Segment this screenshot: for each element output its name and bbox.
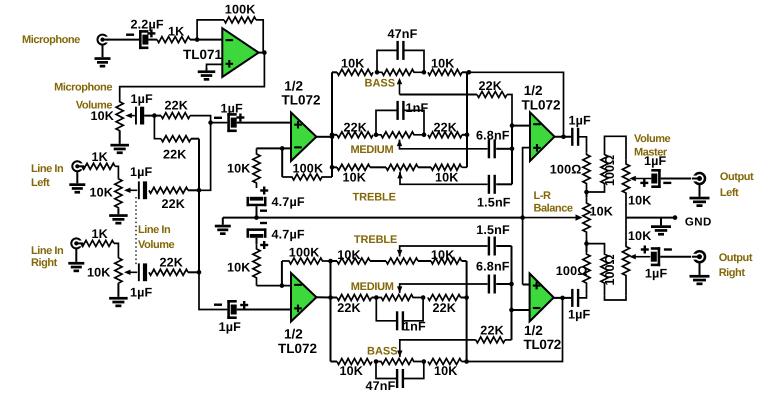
svg-text:22K: 22K [479, 79, 503, 93]
node medium top left [374, 133, 379, 138]
node virtual earth 6.8nF [510, 147, 515, 152]
svg-text:Left: Left [31, 177, 50, 189]
resistor R23 10K (treble bottom right) [431, 248, 462, 264]
svg-text:L-R: L-R [534, 190, 551, 202]
svg-text:TL072: TL072 [522, 98, 561, 113]
capacitor C15 1.5nF (bottom) [476, 223, 510, 256]
op-amp U5 1/2 TL072 [524, 274, 562, 353]
plus sign (C5) [260, 241, 268, 249]
wire R17 to P6 [370, 166, 386, 168]
svg-text:1.5nF: 1.5nF [476, 223, 510, 237]
wire R29 to node B2 [586, 244, 588, 252]
wire right rail top (feedback column) [466, 72, 468, 167]
wire C3 to U2 + input [237, 122, 291, 124]
wiper arrow P3 [124, 270, 137, 275]
svg-text:1/2: 1/2 [524, 323, 543, 338]
wire U3 inv node to R21 [281, 261, 283, 286]
node medium bottom right [421, 295, 426, 300]
node medium bottom left [374, 295, 379, 300]
resistor R26 10K (bass bottom left) [337, 359, 372, 378]
wire U3 output [316, 296, 330, 298]
svg-text:2.2µF: 2.2µF [131, 18, 164, 32]
resistor R6 1K (line L) [82, 150, 115, 169]
svg-text:22K: 22K [162, 197, 186, 211]
resistor R11 100K (U2 feedback) [282, 162, 332, 180]
node bass bottom rail [464, 359, 469, 364]
wire node B to rotated resistor R20 [587, 190, 605, 192]
label MEDIUM bottom [351, 281, 394, 293]
wire rail to R12 [332, 71, 337, 73]
wiper arrow P7 (balance, from reference rail) [523, 214, 583, 220]
svg-text:MEDIUM: MEDIUM [351, 144, 394, 156]
svg-text:1nF: 1nF [403, 320, 426, 334]
node U2 inv input [280, 146, 285, 151]
capacitor C2 1uF (mic volume) [131, 92, 154, 125]
svg-text:100K: 100K [289, 246, 320, 260]
wire C20 to output jack right [660, 256, 695, 258]
wiper arrow P5 (up) [397, 140, 402, 147]
potentiometer P3 10K line volume R [87, 258, 122, 283]
potentiometer P8 10K master volume left [622, 160, 651, 218]
resistor R12 10K (bass top left) [337, 57, 373, 76]
capacitor C5 4.7uF [247, 228, 305, 242]
svg-text:1µF: 1µF [568, 308, 591, 322]
svg-text:100Ω: 100Ω [550, 162, 582, 176]
ground (mic jack) [95, 44, 111, 67]
wire C4 to center node [256, 206, 258, 217]
capacitor C20 1uF (master out right) [641, 246, 672, 281]
svg-text:10K: 10K [434, 364, 458, 378]
ground (GND rail) [651, 218, 671, 236]
resistor R29 100 ohm (right) [556, 252, 590, 294]
capacitor C3 1uF (U2 input) [214, 101, 244, 132]
svg-text:1µF: 1µF [644, 154, 667, 168]
node U3 output junction [328, 295, 333, 300]
ground (P2 bottom) [109, 208, 128, 224]
capacitor C4 4.7uF [247, 195, 305, 209]
label Output Left [720, 171, 754, 199]
svg-text:10K: 10K [628, 229, 652, 243]
resistor R13 10K (bass top right) [428, 57, 462, 76]
svg-text:10K: 10K [337, 248, 361, 262]
svg-text:1K: 1K [168, 25, 184, 39]
svg-text:100Ω: 100Ω [603, 254, 617, 285]
capacitor C17 6.8nF (bottom) [476, 260, 510, 294]
svg-text:22K: 22K [434, 121, 458, 135]
wire rail to R24 [331, 297, 338, 299]
plus sign (C4) [260, 187, 268, 195]
svg-text:TL071: TL071 [183, 47, 223, 62]
connector J1 Microphone jack [98, 35, 111, 45]
node U2 + input branch [208, 120, 213, 125]
node A (U1 inv input) [195, 37, 200, 42]
node GND [673, 215, 678, 220]
wire C19 to R29 [579, 294, 587, 298]
wiper arrow P2 [124, 188, 137, 193]
wiper arrow P8 [629, 176, 651, 181]
svg-text:Left: Left [720, 187, 739, 199]
node bass bottom left [374, 359, 379, 364]
svg-text:BASS: BASS [365, 78, 396, 90]
node TREBLE bottom left [328, 259, 333, 264]
svg-text:TL072: TL072 [524, 337, 562, 352]
minus sign (C4) [260, 209, 267, 211]
resistor R30 100 ohm (rotated label, right) [601, 250, 617, 296]
resistor R27 10K (bass bottom right) [428, 359, 462, 378]
wiper arrow P4 (up) [397, 78, 402, 95]
svg-text:100Ω: 100Ω [556, 264, 588, 278]
wire C1 to R1 [148, 39, 157, 41]
svg-text:1µF: 1µF [130, 165, 153, 179]
wire U4 output [555, 136, 572, 138]
svg-text:1nF: 1nF [406, 101, 429, 115]
node mix rail line L [197, 188, 202, 193]
potentiometer P1 10K mic volume [90, 102, 123, 132]
wire R7 to mix rail [188, 189, 199, 191]
ground (center) [215, 218, 231, 235]
wire right rail bottom (feedback column) [466, 261, 468, 362]
svg-text:1µF: 1µF [131, 92, 154, 106]
connector J3 Line In Right jack [71, 238, 84, 248]
wire treble right to rail corner [462, 166, 468, 168]
resistor R3 22K (mic) [161, 99, 190, 119]
wire R30 bottom to master pot P12 [605, 296, 627, 300]
svg-text:1K: 1K [92, 150, 108, 164]
ground (J5) [690, 261, 710, 285]
svg-text:TL072: TL072 [282, 93, 321, 108]
resistor R19 100 ohm (left) [550, 152, 590, 190]
label GND [685, 217, 712, 229]
capacitor C8 1uF (line R) [130, 263, 153, 299]
svg-text:1/2: 1/2 [284, 79, 303, 94]
wire center reference rail [223, 217, 523, 219]
label Microphone [22, 34, 80, 46]
potentiometer P12 10K master volume right [622, 229, 651, 296]
svg-text:10K: 10K [87, 266, 111, 280]
svg-text:10K: 10K [340, 364, 364, 378]
wire C5 to R5 [256, 238, 258, 244]
svg-text:Balance: Balance [534, 203, 573, 215]
wire U1 output [259, 52, 265, 54]
label Volume Master [634, 133, 671, 159]
wire R20 top to master pot P8 [605, 136, 627, 160]
svg-text:4.7µF: 4.7µF [272, 228, 305, 242]
wire rail to R17 [332, 166, 337, 168]
wire node B2 to rotated resistor R30 [587, 244, 605, 250]
wiper arrow P6 (up) [397, 172, 402, 179]
node medium bottom rail [464, 295, 469, 300]
wire U3 non-inverting input [237, 309, 291, 311]
svg-text:1µF: 1µF [130, 286, 153, 300]
wire R9 to P3 [114, 243, 118, 258]
op-amp U3 1/2 TL072 [278, 273, 317, 356]
resistor R8 22K (mic to mix rail) [161, 136, 191, 162]
op-amp U2 1/2 TL072 [282, 79, 321, 162]
wire bass bottom row to U5 output net [462, 298, 563, 362]
op-amp U4 1/2 TL072 [522, 83, 561, 161]
svg-text:10K: 10K [341, 57, 365, 71]
capacitor C1 2.2uF [126, 18, 164, 50]
resistor R14 22K (bass top) [477, 79, 507, 98]
resistor R25 22K (medium bottom right) [428, 295, 461, 315]
wire C15 to virtual earth column bottom [496, 245, 511, 247]
capacitor C14 1uF (master out left) [640, 154, 671, 188]
svg-text:TREBLE: TREBLE [354, 234, 397, 246]
wire R1 to U1 inverting input [190, 39, 222, 41]
connector J5 Output Right jack [691, 251, 705, 262]
node U4 output junction [561, 135, 566, 140]
potentiometer P6 treble top [386, 164, 418, 170]
wire treble wiper to C12 [400, 172, 488, 184]
svg-text:1µF: 1µF [569, 113, 592, 127]
node bass bottom right [422, 359, 427, 364]
op-amp U1 TL071 [183, 28, 259, 77]
wire R8 to mix rail [191, 138, 199, 140]
node bass top left [375, 70, 380, 75]
wire U1 output down and left to volume pot [120, 53, 265, 102]
node B left channel [584, 190, 589, 195]
wire node X down to R8 [154, 116, 161, 139]
wire U2 output [316, 136, 332, 138]
capacitor C19 1uF (right out coupling) [568, 289, 591, 322]
wire bass wiper to R14 [400, 94, 478, 96]
wire mix rail to C6 [199, 272, 227, 309]
ground (J4) [690, 183, 710, 207]
wire U4 non-inverting to reference [523, 148, 530, 285]
wire R10 to mix rail [188, 271, 199, 273]
wire C12 to virtual earth column [496, 183, 512, 185]
connector J2 Line In Left jack [72, 161, 85, 171]
wire C13 to R19 [579, 137, 587, 152]
wire C11 to virtual earth node [496, 148, 512, 150]
connector J4 Output Left jack [691, 173, 705, 184]
resistor R1 1K [157, 25, 190, 43]
svg-text:10K: 10K [628, 194, 652, 208]
node reference rail junction [520, 215, 525, 220]
wire mic jack to C1 [106, 39, 139, 41]
label Microphone Volume [54, 82, 112, 112]
node medium top right [422, 133, 427, 138]
svg-text:22K: 22K [344, 121, 368, 135]
wire left rail top (U2 output rail) [331, 72, 333, 177]
wiper arrow P12 [629, 254, 650, 259]
wire C17 to virtual earth node bottom [496, 283, 511, 285]
node virtual earth at U5 inv input [509, 308, 514, 313]
svg-text:Line In: Line In [31, 163, 64, 175]
svg-text:Output: Output [719, 252, 753, 264]
capacitor C16 1nF (medium bottom) with bridge [376, 298, 426, 334]
node medium right rail [465, 133, 470, 138]
svg-text:1K: 1K [92, 227, 108, 241]
svg-text:22K: 22K [433, 301, 457, 315]
wire treble bottom wiper to C15 [400, 246, 488, 256]
wire to U4 inverting input [512, 125, 530, 127]
svg-text:22K: 22K [165, 99, 189, 113]
gang line (Line In Volume dotted) [135, 197, 137, 266]
svg-text:10K: 10K [89, 186, 113, 200]
svg-text:Right: Right [719, 267, 746, 279]
svg-text:10K: 10K [90, 109, 114, 123]
wire to U5 inverting input [512, 309, 531, 311]
svg-text:Microphone: Microphone [22, 34, 80, 46]
potentiometer P7 10K L-R balance [583, 197, 613, 240]
svg-text:10K: 10K [227, 162, 251, 176]
svg-text:6.8nF: 6.8nF [476, 129, 510, 143]
svg-text:1.5nF: 1.5nF [477, 195, 511, 209]
resistor R20 100 ohm (rotated label, left) [601, 151, 617, 190]
svg-text:22K: 22K [480, 323, 504, 337]
wiper arrow P1 [125, 113, 135, 118]
svg-text:10K: 10K [227, 261, 251, 275]
wire master pots to GND rail [626, 218, 675, 241]
label MEDIUM top [351, 144, 394, 156]
svg-text:TL072: TL072 [278, 341, 317, 356]
wire U5 output [554, 297, 572, 299]
node U1 output junction [262, 50, 267, 55]
label Line In Volume [138, 224, 175, 251]
wire C14 to output jack left [661, 178, 695, 180]
label Line In Right [31, 245, 64, 269]
svg-text:4.7µF: 4.7µF [272, 195, 305, 209]
wire R3 to C3 with jog [190, 116, 227, 123]
label TREBLE bottom [354, 234, 397, 246]
label Output Right [719, 252, 753, 279]
capacitor C7 1uF (line L) [130, 165, 153, 199]
node B2 right channel [584, 241, 589, 246]
wiper arrow P11 (down) [397, 351, 402, 358]
wire R14 to virtual earth column [507, 95, 512, 126]
svg-text:10K: 10K [435, 170, 459, 184]
potentiometer P10 medium bottom [372, 295, 424, 301]
capacitor C12 1.5nF (top) [477, 175, 511, 210]
wire bass bottom wiper to R28 [400, 340, 476, 357]
svg-text:100Ω: 100Ω [603, 155, 617, 186]
wire bass row to U2 output net [469, 72, 564, 137]
svg-text:6.8nF: 6.8nF [476, 260, 510, 274]
node bass top feedback [467, 70, 472, 75]
svg-text:Microphone: Microphone [54, 82, 112, 94]
ground (U1 + input) [198, 68, 216, 81]
resistor R5 10K (U3 gain) [227, 244, 260, 285]
wire U1 non-inverting input to ground [207, 64, 223, 70]
wire virtual earth column top [511, 126, 513, 185]
wire P6 to R18 [418, 166, 431, 168]
ground (P3 bottom) [109, 283, 128, 307]
label L-R Balance [534, 190, 573, 215]
wire U2 inv node to R11 [281, 148, 283, 177]
node virtual earth 6.8nF bottom [509, 282, 514, 287]
svg-text:1/2: 1/2 [284, 327, 303, 342]
node bass top right [422, 70, 427, 75]
label Line In Left [31, 163, 64, 189]
svg-text:22K: 22K [337, 301, 361, 315]
wire U5 non-inverting to reference [523, 284, 530, 286]
wire P9 to R23 [418, 260, 431, 262]
potentiometer P9 treble bottom [386, 258, 418, 264]
svg-text:Line In: Line In [31, 245, 64, 257]
svg-text:Volume: Volume [138, 239, 175, 251]
wire medium bottom wiper to C17 [400, 284, 488, 293]
svg-text:100K: 100K [293, 162, 324, 176]
wiper arrow P9 (down) [397, 250, 402, 257]
resistor R9 1K (line R) [81, 227, 114, 246]
resistor R28 22K (bass bottom) [476, 323, 505, 343]
svg-text:47nF: 47nF [388, 27, 418, 41]
potentiometer P11 bass bottom [376, 359, 424, 365]
svg-text:1µF: 1µF [221, 101, 244, 115]
svg-text:1µF: 1µF [645, 267, 668, 281]
wire R5 to U3 inverting input [257, 285, 292, 287]
label TREBLE top [353, 192, 396, 204]
svg-text:10K: 10K [343, 170, 367, 184]
wire medium wiper to C11 [400, 140, 488, 149]
capacitor C11 6.8nF (top) [476, 129, 510, 159]
svg-text:22K: 22K [160, 256, 184, 270]
potentiometer P5 medium top [376, 132, 424, 138]
node center reference [254, 215, 259, 220]
wire bass right to feedback node [462, 71, 469, 73]
node U3 inv input [280, 283, 285, 288]
resistor R10 22K (line R) [149, 256, 188, 276]
svg-text:47nF: 47nF [366, 379, 396, 393]
ground (J2) [69, 171, 85, 194]
wire mix branch to U2 + node [199, 123, 211, 191]
resistor R17 10K (treble top left) [337, 164, 370, 184]
capacitor C10 1nF (medium top) with bridge [376, 101, 428, 135]
node MEDIUM row left [330, 133, 335, 138]
wire medium right to rail [462, 134, 467, 136]
svg-text:10K: 10K [590, 204, 614, 218]
resistor R21 100K (U3 feedback) [282, 246, 331, 265]
potentiometer P2 10K line volume L [89, 178, 122, 208]
wire C2 to R3 [144, 115, 161, 117]
wire rail to R22 [331, 260, 338, 262]
potentiometer P4 bass top [377, 69, 424, 75]
node mix rail line R [197, 270, 202, 275]
wire mix rail vertical [198, 139, 200, 273]
wire R28 to virtual earth column [505, 339, 512, 341]
svg-text:TREBLE: TREBLE [353, 192, 396, 204]
node U5 output junction [560, 296, 565, 301]
svg-text:1/2: 1/2 [524, 83, 543, 98]
capacitor C9 47nF (bass top) with bridge [377, 27, 424, 72]
svg-text:MEDIUM: MEDIUM [351, 281, 394, 293]
wire virtual earth column bottom [511, 246, 513, 340]
capacitor C13 1uF (left out coupling) [569, 113, 592, 146]
svg-text:10K: 10K [431, 248, 455, 262]
capacitor C18 47nF (bass bottom) with bridge [366, 362, 424, 394]
resistor R7 22K (line L) [149, 187, 188, 211]
resistor R16 22K (medium top right) [428, 121, 462, 138]
wire R6 to P2 [115, 166, 118, 178]
resistor R18 10K (treble top right) [431, 164, 462, 184]
wire R22 to P9 [370, 260, 386, 262]
svg-text:22K: 22K [163, 148, 187, 162]
node U2 output junction [330, 135, 335, 140]
wiper arrow P10 (down) [397, 286, 402, 293]
wire treble bottom right to rail corner [462, 260, 467, 262]
svg-text:100K: 100K [225, 3, 256, 17]
svg-text:10K: 10K [431, 57, 455, 71]
svg-text:Output: Output [720, 171, 754, 183]
resistor R24 22K (medium bottom left) [337, 295, 372, 315]
label BASS top [365, 78, 396, 90]
svg-text:GND: GND [685, 217, 712, 229]
wire rail to R26 [331, 361, 338, 363]
capacitor C6 1uF (U3 input) [214, 300, 248, 334]
minus sign (C5) [260, 222, 267, 224]
svg-text:BASS: BASS [367, 346, 398, 358]
